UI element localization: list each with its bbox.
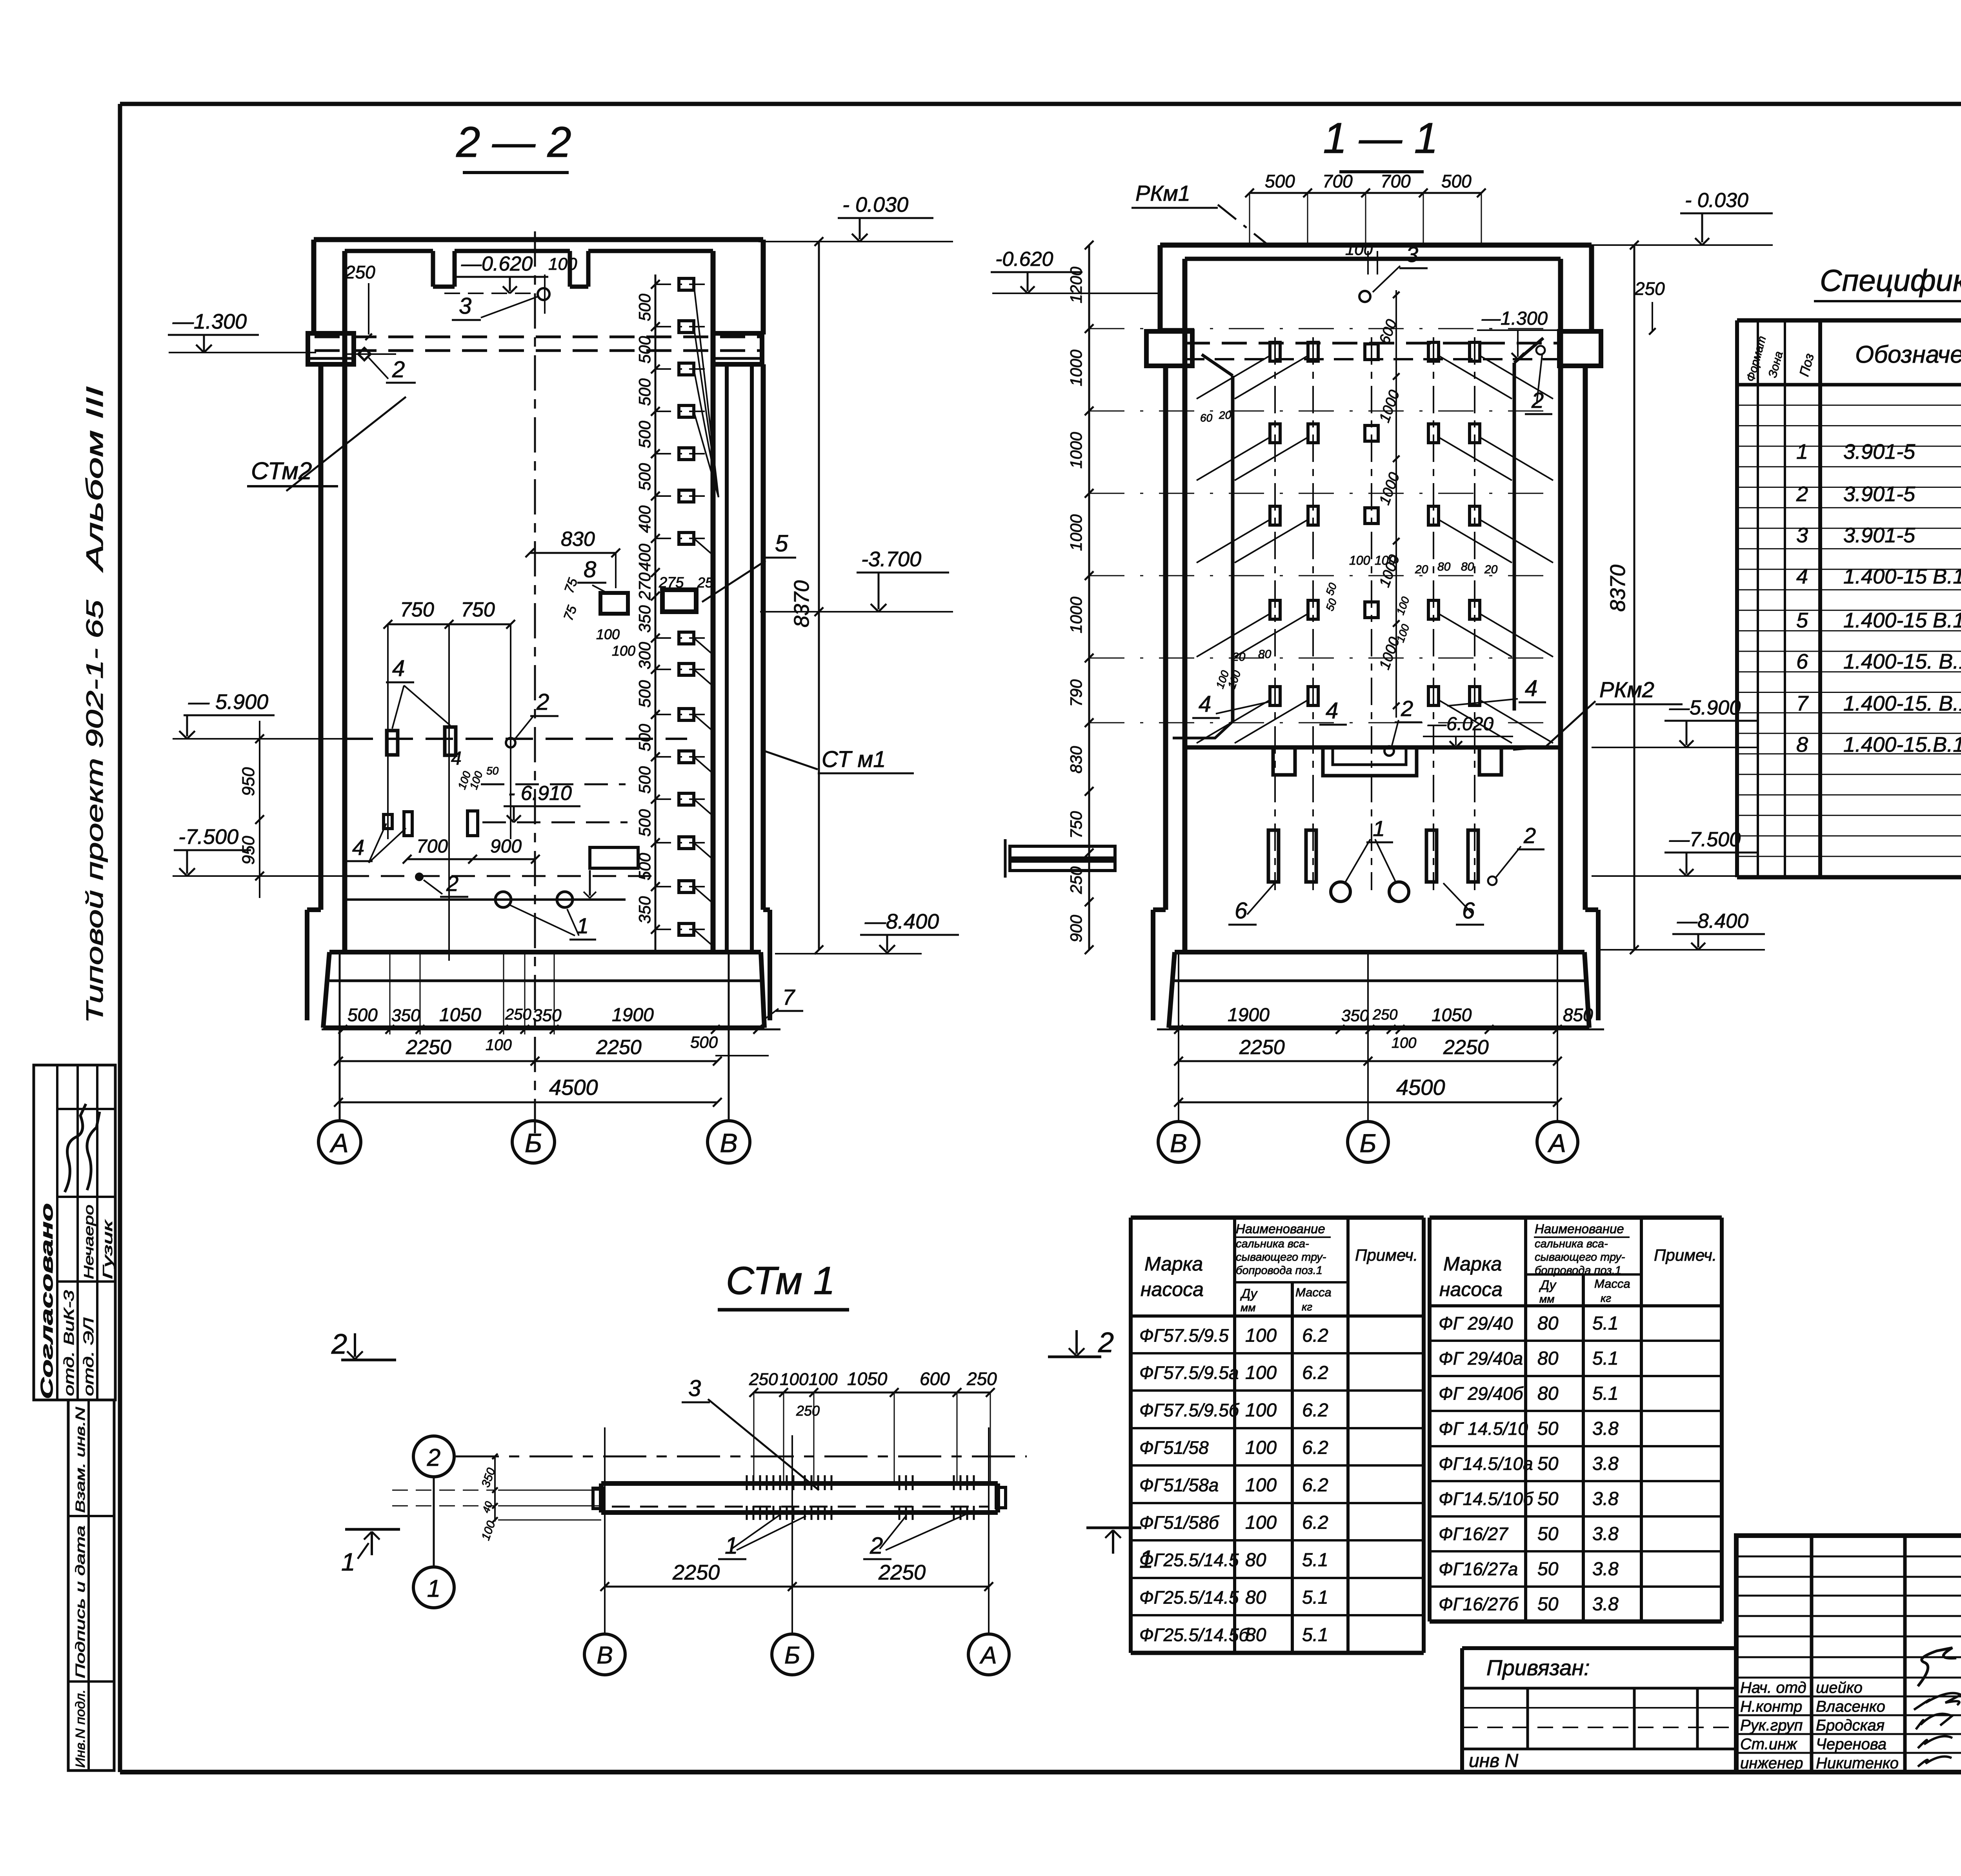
svg-text:СТ м1: СТ м1 <box>822 747 886 772</box>
svg-text:Привязан:: Привязан: <box>1486 1655 1590 1680</box>
svg-text:Нач. отд: Нач. отд <box>1740 1679 1806 1696</box>
svg-text:-0.620: -0.620 <box>995 248 1053 271</box>
svg-text:Черенова: Черенова <box>1816 1736 1886 1753</box>
svg-text:—5.900: —5.900 <box>1669 696 1741 719</box>
svg-text:- 6.910: - 6.910 <box>508 782 572 805</box>
svg-text:Ст.инж: Ст.инж <box>1740 1736 1797 1753</box>
svg-text:—8.400: —8.400 <box>864 910 939 933</box>
svg-text:1.400-15. В.1. 110-02: 1.400-15. В.1. 110-02 <box>1843 692 1961 715</box>
svg-text:Бродская: Бродская <box>1816 1717 1885 1734</box>
svg-text:мм: мм <box>1539 1293 1554 1305</box>
svg-text:5: 5 <box>1796 609 1808 632</box>
svg-text:-7.500: -7.500 <box>178 825 238 849</box>
svg-text:2250: 2250 <box>878 1561 926 1584</box>
svg-text:1050: 1050 <box>439 1005 481 1025</box>
svg-text:3.901-5: 3.901-5 <box>1843 482 1916 506</box>
svg-text:Масса: Масса <box>1295 1285 1332 1299</box>
svg-text:500: 500 <box>1265 171 1295 191</box>
svg-text:25: 25 <box>697 574 713 591</box>
svg-text:Марка: Марка <box>1443 1253 1502 1275</box>
svg-text:2: 2 <box>1098 1327 1114 1358</box>
svg-text:950: 950 <box>239 836 258 865</box>
svg-text:4: 4 <box>392 656 405 681</box>
svg-text:—1.300: —1.300 <box>1481 308 1548 329</box>
svg-text:80: 80 <box>1537 1383 1559 1404</box>
svg-text:80: 80 <box>1537 1348 1559 1369</box>
svg-text:Спецификация: Спецификация <box>1820 263 1961 298</box>
svg-text:А: А <box>979 1642 997 1669</box>
svg-text:900: 900 <box>1067 914 1085 942</box>
svg-text:6.2: 6.2 <box>1302 1325 1328 1346</box>
svg-text:Обозначение: Обозначение <box>1855 341 1961 368</box>
svg-text:500: 500 <box>635 766 654 794</box>
svg-text:500: 500 <box>635 463 654 491</box>
svg-text:В: В <box>597 1642 613 1669</box>
svg-text:ФГ51/58а: ФГ51/58а <box>1139 1475 1219 1495</box>
svg-text:500: 500 <box>635 723 654 751</box>
svg-text:80: 80 <box>1245 1587 1266 1608</box>
svg-text:2250: 2250 <box>672 1561 720 1584</box>
svg-text:100: 100 <box>1245 1363 1277 1383</box>
svg-text:Примеч.: Примеч. <box>1654 1246 1717 1264</box>
svg-text:2: 2 <box>331 1329 347 1360</box>
svg-text:Наименование: Наименование <box>1236 1222 1325 1236</box>
svg-text:2: 2 <box>1401 696 1413 721</box>
svg-text:350: 350 <box>635 896 654 924</box>
svg-text:6.2: 6.2 <box>1302 1438 1328 1458</box>
svg-text:ФГ16/27: ФГ16/27 <box>1439 1524 1508 1544</box>
svg-text:1: 1 <box>1373 816 1385 841</box>
svg-text:4: 4 <box>1199 691 1211 717</box>
svg-text:ФГ57.5/9.5: ФГ57.5/9.5 <box>1139 1325 1229 1346</box>
svg-text:5: 5 <box>775 530 788 556</box>
svg-text:250: 250 <box>505 1006 531 1023</box>
svg-text:6.2: 6.2 <box>1302 1512 1328 1533</box>
svg-text:ФГ51/58: ФГ51/58 <box>1139 1438 1209 1458</box>
svg-text:2: 2 <box>536 689 549 715</box>
svg-text:Никитенко: Никитенко <box>1816 1755 1899 1772</box>
svg-text:2250: 2250 <box>596 1036 642 1059</box>
svg-text:830: 830 <box>1067 746 1085 774</box>
svg-text:5.1: 5.1 <box>1592 1348 1619 1369</box>
svg-text:Взам. инв.N: Взам. инв.N <box>73 1407 87 1513</box>
svg-text:20: 20 <box>1415 563 1428 576</box>
svg-text:ФГ14.5/10а: ФГ14.5/10а <box>1439 1454 1533 1474</box>
svg-text:2250: 2250 <box>1443 1036 1489 1059</box>
svg-text:100: 100 <box>780 1370 809 1389</box>
svg-text:50: 50 <box>1537 1454 1559 1474</box>
svg-text:сывающего тру-: сывающего тру- <box>1236 1251 1326 1263</box>
svg-text:100: 100 <box>548 254 577 274</box>
svg-text:100: 100 <box>809 1370 838 1389</box>
svg-text:бопровода поз.1: бопровода поз.1 <box>1236 1264 1322 1277</box>
svg-text:50: 50 <box>1537 1489 1559 1509</box>
svg-text:сывающего тру-: сывающего тру- <box>1535 1251 1625 1263</box>
svg-text:1.400-15.В.1. 120-59: 1.400-15.В.1. 120-59 <box>1843 733 1961 756</box>
svg-text:100: 100 <box>1245 1512 1277 1533</box>
svg-text:100: 100 <box>1245 1325 1277 1346</box>
svg-text:ФГ16/27б: ФГ16/27б <box>1439 1594 1519 1614</box>
svg-text:Нечаеро: Нечаеро <box>82 1205 96 1279</box>
svg-text:1050: 1050 <box>847 1369 888 1389</box>
svg-text:1: 1 <box>1139 1545 1153 1573</box>
svg-text:сальника вса-: сальника вса- <box>1535 1238 1608 1250</box>
svg-text:80: 80 <box>1258 648 1272 661</box>
svg-text:1.400-15 В.1. 120-59: 1.400-15 В.1. 120-59 <box>1843 609 1961 632</box>
svg-text:100: 100 <box>1375 553 1396 567</box>
svg-text:Б: Б <box>784 1642 800 1669</box>
svg-text:950: 950 <box>239 767 258 796</box>
svg-text:3.8: 3.8 <box>1592 1489 1619 1509</box>
svg-text:3.8: 3.8 <box>1592 1454 1619 1474</box>
svg-text:1050: 1050 <box>1432 1005 1472 1025</box>
svg-text:—0.620: —0.620 <box>461 253 533 275</box>
svg-text:ФГ25.5/14.5: ФГ25.5/14.5 <box>1139 1550 1239 1570</box>
svg-text:100: 100 <box>1345 240 1373 258</box>
svg-text:насоса: насоса <box>1439 1278 1503 1300</box>
svg-text:—6.020: —6.020 <box>1427 714 1493 734</box>
svg-text:350: 350 <box>1341 1006 1369 1025</box>
svg-text:ФГ51/58б: ФГ51/58б <box>1139 1512 1220 1533</box>
svg-text:инв N: инв N <box>1469 1751 1519 1771</box>
svg-text:кг: кг <box>1601 1292 1611 1304</box>
svg-text:Власенко: Власенко <box>1816 1698 1885 1715</box>
svg-text:5.1: 5.1 <box>1302 1587 1328 1608</box>
svg-text:В: В <box>1170 1129 1187 1158</box>
svg-text:50: 50 <box>1537 1418 1559 1439</box>
svg-text:8370: 8370 <box>1606 565 1630 612</box>
svg-text:700: 700 <box>1322 171 1353 191</box>
svg-text:ФГ57.5/9.5а: ФГ57.5/9.5а <box>1139 1363 1239 1383</box>
svg-text:5.1: 5.1 <box>1302 1550 1328 1571</box>
svg-text:Примеч.: Примеч. <box>1355 1246 1418 1264</box>
svg-text:100: 100 <box>1392 1035 1416 1051</box>
svg-text:СТм 1: СТм 1 <box>726 1259 835 1303</box>
svg-text:3.8: 3.8 <box>1592 1524 1619 1545</box>
svg-text:50: 50 <box>1537 1594 1559 1615</box>
svg-text:ФГ 29/40: ФГ 29/40 <box>1439 1313 1513 1334</box>
svg-text:Б: Б <box>1360 1129 1377 1158</box>
svg-text:4: 4 <box>1326 698 1338 723</box>
svg-text:20: 20 <box>1484 563 1498 576</box>
svg-text:2250: 2250 <box>1239 1036 1285 1059</box>
svg-text:4500: 4500 <box>1396 1075 1445 1100</box>
svg-text:20: 20 <box>1232 651 1246 664</box>
svg-text:насоса: насоса <box>1141 1278 1204 1300</box>
svg-text:4500: 4500 <box>549 1075 598 1100</box>
svg-text:50: 50 <box>486 765 499 777</box>
svg-text:отд. ВиК-3: отд. ВиК-3 <box>61 1290 77 1396</box>
svg-text:ФГ57.5/9.5б: ФГ57.5/9.5б <box>1139 1400 1240 1420</box>
svg-text:1000: 1000 <box>1067 432 1085 469</box>
svg-text:1000: 1000 <box>1067 514 1085 551</box>
svg-text:830: 830 <box>561 528 595 551</box>
svg-text:350: 350 <box>635 605 654 633</box>
svg-text:6.2: 6.2 <box>1302 1475 1328 1496</box>
svg-text:мм: мм <box>1241 1302 1255 1314</box>
svg-text:Б: Б <box>525 1128 542 1158</box>
svg-text:60: 60 <box>1200 412 1213 424</box>
svg-text:270: 270 <box>635 572 654 600</box>
svg-text:275: 275 <box>659 574 684 591</box>
svg-text:350: 350 <box>391 1006 420 1025</box>
svg-text:100: 100 <box>1245 1475 1277 1496</box>
svg-text:50: 50 <box>1537 1524 1559 1545</box>
svg-text:1900: 1900 <box>1228 1005 1270 1025</box>
svg-text:250: 250 <box>966 1369 997 1389</box>
svg-text:80: 80 <box>1437 560 1451 573</box>
svg-text:3.8: 3.8 <box>1592 1594 1619 1615</box>
svg-text:бопровода поз.1: бопровода поз.1 <box>1535 1264 1621 1277</box>
svg-text:Инв.N подл.: Инв.N подл. <box>73 1689 87 1768</box>
svg-text:6: 6 <box>1796 650 1808 673</box>
svg-text:6.2: 6.2 <box>1302 1363 1328 1383</box>
svg-text:80: 80 <box>1461 560 1474 573</box>
svg-text:1000: 1000 <box>1067 596 1085 633</box>
svg-text:300: 300 <box>635 642 654 669</box>
svg-text:100: 100 <box>596 626 620 642</box>
svg-text:В: В <box>720 1128 737 1158</box>
svg-text:Марка: Марка <box>1144 1253 1203 1275</box>
svg-text:Альбом III: Альбом III <box>82 386 108 573</box>
svg-text:100: 100 <box>1349 553 1370 567</box>
svg-text:20: 20 <box>1219 409 1232 421</box>
svg-text:ФГ14.5/10б: ФГ14.5/10б <box>1439 1489 1534 1509</box>
svg-text:500: 500 <box>690 1033 718 1051</box>
svg-text:Гузик: Гузик <box>100 1219 115 1279</box>
svg-text:Н.контр: Н.контр <box>1740 1698 1802 1715</box>
svg-text:3: 3 <box>688 1376 701 1401</box>
svg-text:750: 750 <box>1067 811 1085 839</box>
svg-text:1000: 1000 <box>1067 349 1085 386</box>
svg-text:3.901-5: 3.901-5 <box>1843 524 1916 547</box>
svg-text:ФГ25.5/14.5: ФГ25.5/14.5 <box>1139 1587 1239 1608</box>
svg-text:— 5.900: — 5.900 <box>188 690 268 714</box>
svg-text:4: 4 <box>352 835 364 860</box>
svg-text:1.400-15 В.1. 120-23: 1.400-15 В.1. 120-23 <box>1843 565 1961 588</box>
svg-text:Ду: Ду <box>1240 1286 1258 1301</box>
svg-text:А: А <box>329 1128 348 1158</box>
svg-text:80: 80 <box>1245 1625 1266 1645</box>
svg-text:2: 2 <box>392 357 405 382</box>
svg-text:8: 8 <box>1796 733 1808 756</box>
svg-text:500: 500 <box>635 293 654 321</box>
svg-text:3.901-5: 3.901-5 <box>1843 440 1916 464</box>
svg-text:-3.700: -3.700 <box>861 547 921 571</box>
svg-text:7: 7 <box>1796 692 1809 715</box>
svg-text:250: 250 <box>796 1403 820 1419</box>
svg-text:1.400-15. В.1. 150-23: 1.400-15. В.1. 150-23 <box>1843 650 1961 673</box>
svg-text:7: 7 <box>782 985 795 1009</box>
svg-text:2250: 2250 <box>406 1036 451 1059</box>
svg-text:900: 900 <box>490 836 522 857</box>
svg-text:2: 2 <box>1523 823 1536 848</box>
svg-text:400: 400 <box>635 505 654 533</box>
svg-text:750: 750 <box>461 598 495 621</box>
svg-text:2 — 2: 2 — 2 <box>456 118 571 166</box>
svg-text:600: 600 <box>920 1369 950 1389</box>
svg-text:250: 250 <box>345 262 375 282</box>
svg-text:4: 4 <box>1796 565 1808 588</box>
svg-text:350: 350 <box>533 1006 562 1025</box>
svg-text:8370: 8370 <box>790 580 813 627</box>
svg-text:6: 6 <box>1235 898 1248 923</box>
svg-text:2: 2 <box>1796 482 1808 506</box>
svg-text:500: 500 <box>1441 171 1472 191</box>
svg-text:250: 250 <box>749 1370 778 1389</box>
svg-text:4: 4 <box>1525 676 1537 701</box>
svg-text:3: 3 <box>1406 242 1418 267</box>
svg-text:250: 250 <box>1634 278 1665 299</box>
svg-text:700: 700 <box>1381 171 1411 191</box>
svg-text:отд. ЭЛ: отд. ЭЛ <box>80 1318 96 1396</box>
svg-text:Масса: Масса <box>1594 1277 1630 1291</box>
svg-text:6.2: 6.2 <box>1302 1400 1328 1421</box>
svg-text:250: 250 <box>1372 1007 1397 1023</box>
svg-text:- 0.030: - 0.030 <box>842 193 908 216</box>
svg-text:—7.500: —7.500 <box>1669 828 1741 851</box>
svg-text:кг: кг <box>1302 1301 1312 1313</box>
svg-text:- 0.030: - 0.030 <box>1685 189 1748 212</box>
svg-text:Подпись и дата: Подпись и дата <box>73 1525 87 1678</box>
svg-text:Ду: Ду <box>1539 1278 1557 1292</box>
svg-text:3.8: 3.8 <box>1592 1418 1619 1439</box>
svg-text:инженер: инженер <box>1740 1755 1803 1772</box>
svg-text:100: 100 <box>1245 1438 1277 1458</box>
svg-text:500: 500 <box>635 680 654 708</box>
svg-text:3: 3 <box>459 293 471 319</box>
svg-text:Типовой проект 902-1- 65: Типовой проект 902-1- 65 <box>82 600 108 1023</box>
svg-text:100: 100 <box>1245 1400 1277 1421</box>
svg-text:ФГ 29/40а: ФГ 29/40а <box>1439 1348 1523 1369</box>
svg-text:5.1: 5.1 <box>1592 1383 1619 1404</box>
svg-text:80: 80 <box>1245 1550 1266 1571</box>
svg-text:700: 700 <box>417 836 448 857</box>
svg-text:Рук.груп: Рук.груп <box>1740 1717 1803 1734</box>
svg-text:2: 2 <box>446 871 458 896</box>
svg-text:ФГ 14.5/10: ФГ 14.5/10 <box>1439 1418 1528 1439</box>
svg-text:2: 2 <box>870 1532 883 1559</box>
svg-text:шейко: шейко <box>1816 1679 1863 1696</box>
svg-text:500: 500 <box>347 1005 378 1025</box>
svg-text:сальника вса-: сальника вса- <box>1236 1238 1309 1250</box>
svg-text:500: 500 <box>635 809 654 837</box>
svg-text:400: 400 <box>635 544 654 571</box>
svg-text:А: А <box>1547 1129 1566 1158</box>
svg-text:1: 1 <box>341 1548 355 1576</box>
svg-text:100: 100 <box>486 1036 512 1054</box>
svg-text:80: 80 <box>1537 1313 1559 1334</box>
svg-text:3: 3 <box>1796 524 1808 547</box>
svg-text:СТм2: СТм2 <box>251 458 312 485</box>
svg-text:50: 50 <box>1537 1559 1559 1580</box>
svg-text:100: 100 <box>612 643 635 659</box>
svg-text:790: 790 <box>1067 679 1085 707</box>
svg-text:РКм1: РКм1 <box>1135 181 1190 205</box>
svg-text:850: 850 <box>1563 1005 1593 1025</box>
svg-text:2: 2 <box>427 1444 440 1471</box>
svg-text:5.1: 5.1 <box>1592 1313 1619 1334</box>
svg-text:ФГ25.5/14.5б: ФГ25.5/14.5б <box>1139 1625 1250 1645</box>
svg-text:8: 8 <box>584 557 596 582</box>
svg-text:1 — 1: 1 — 1 <box>1323 114 1438 162</box>
svg-text:500: 500 <box>635 378 654 406</box>
svg-text:ФГ16/27а: ФГ16/27а <box>1439 1559 1518 1579</box>
svg-text:ФГ 29/40б: ФГ 29/40б <box>1439 1383 1524 1404</box>
svg-text:4: 4 <box>451 748 462 769</box>
svg-text:—1.300: —1.300 <box>172 310 247 333</box>
svg-text:1900: 1900 <box>612 1005 654 1025</box>
svg-text:РКм2: РКм2 <box>1599 677 1654 702</box>
svg-text:Согласовано: Согласовано <box>37 1203 56 1399</box>
svg-text:Наименование: Наименование <box>1535 1222 1624 1236</box>
svg-text:500: 500 <box>635 420 654 448</box>
svg-text:3.8: 3.8 <box>1592 1559 1619 1580</box>
svg-text:1: 1 <box>427 1575 440 1602</box>
svg-text:—8.400: —8.400 <box>1677 910 1748 933</box>
svg-text:5.1: 5.1 <box>1302 1625 1328 1645</box>
svg-text:750: 750 <box>400 598 434 621</box>
svg-text:1: 1 <box>1796 440 1808 464</box>
